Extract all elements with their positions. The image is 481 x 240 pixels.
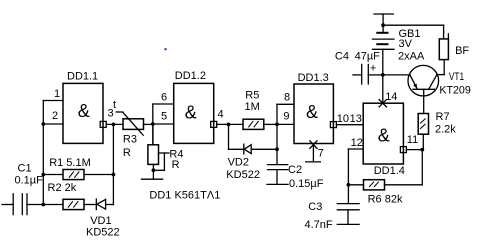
pin 6 label — [161, 92, 167, 104]
thermistor R3 — [116, 112, 153, 135]
transistor Q1 : VT1 — [408, 65, 444, 113]
pin 10 output square DD1.3 — [330, 122, 336, 128]
svg-text:+: + — [370, 63, 376, 75]
svg-text:7: 7 — [318, 147, 324, 159]
node VD2 right junction — [275, 147, 279, 151]
pin 3 label — [108, 108, 114, 120]
svg-text:0.15µF: 0.15µF — [289, 178, 324, 190]
svg-text:C3: C3 — [308, 201, 322, 213]
wire pin 12 — [348, 148, 363, 150]
node R4 wiper junction — [152, 168, 156, 172]
pin 4 label — [218, 109, 224, 121]
trimmer R4 — [148, 124, 169, 179]
svg-text:8: 8 — [284, 91, 290, 103]
R6 value label — [368, 193, 403, 205]
svg-text:R: R — [172, 159, 180, 171]
node R1 left junction — [41, 173, 45, 177]
svg-text:1: 1 — [54, 88, 60, 100]
pin 5 label — [161, 110, 167, 122]
power pin 14 cross — [379, 100, 386, 107]
pin 9 label — [283, 110, 289, 122]
svg-text:0.1µF: 0.1µF — [15, 174, 44, 186]
svg-text:R5: R5 — [245, 90, 259, 102]
emitter arrowhead — [413, 84, 417, 89]
svg-text:R7: R7 — [436, 111, 450, 123]
svg-text:47µF: 47µF — [355, 51, 381, 63]
wire DD1.2 input rail — [153, 104, 174, 145]
svg-text:DD1.1: DD1.1 — [67, 70, 98, 82]
wire DD1.3 input rail — [277, 104, 294, 164]
svg-text:R: R — [123, 147, 131, 159]
ground under R4 — [142, 178, 163, 180]
R7 value label — [435, 111, 456, 135]
svg-text:&: & — [78, 101, 90, 121]
svg-text:R3: R3 — [123, 134, 137, 146]
wire top rail to BF — [383, 25, 444, 39]
capacitor C1 — [2, 194, 43, 215]
svg-text:R6 82k: R6 82k — [368, 193, 403, 205]
svg-text:6: 6 — [161, 92, 167, 104]
node pin4 junction — [227, 123, 231, 127]
svg-text:9: 9 — [283, 110, 289, 122]
pin 4 output square DD1.2 — [211, 121, 217, 127]
svg-text:3V: 3V — [399, 38, 413, 50]
pin 7 label — [318, 147, 324, 159]
svg-text:KD522: KD522 — [226, 169, 260, 181]
buzzer BF — [439, 34, 448, 75]
svg-text:KT209: KT209 — [439, 85, 470, 97]
capacitor C4 — [353, 64, 383, 84]
op-amp U3 : logic gate DD1.3 — [294, 84, 333, 144]
diode VD2 — [229, 124, 278, 154]
svg-text:13: 13 — [350, 113, 362, 125]
capacitor C3 — [337, 149, 359, 224]
svg-text:C4: C4 — [335, 51, 349, 63]
resistor R5 — [243, 119, 277, 129]
svg-text:DD1 K561TΛ1: DD1 K561TΛ1 — [149, 189, 220, 201]
pin 2 label — [52, 110, 58, 122]
svg-text:11: 11 — [407, 134, 418, 146]
svg-text:DD1.3: DD1.3 — [298, 72, 329, 84]
VD2 label — [226, 156, 260, 181]
node R5 right junction — [275, 123, 279, 127]
node R1 right junction — [112, 173, 116, 177]
stray blue dot — [164, 48, 166, 50]
R1 value label — [49, 157, 91, 169]
DD1.3 label — [298, 72, 329, 122]
svg-text:12: 12 — [351, 137, 363, 149]
capacitor C2 — [268, 165, 288, 185]
wire node down to R6 — [421, 150, 423, 185]
VD1 label — [86, 215, 120, 239]
svg-text:DD1.4: DD1.4 — [374, 165, 405, 177]
svg-text:R2 2k: R2 2k — [48, 182, 77, 194]
op-amp U1 : logic gate DD1.1 — [63, 83, 103, 143]
C1 label — [15, 162, 44, 186]
GB1 label — [398, 28, 425, 63]
pin 8 label — [284, 91, 290, 103]
svg-text:VD2: VD2 — [228, 156, 249, 168]
resistor R2 — [43, 199, 96, 209]
node C1/R2 junction — [41, 203, 45, 207]
node pin11 junction — [420, 148, 424, 152]
node R6 left junction — [347, 183, 351, 187]
svg-text:4: 4 — [218, 109, 224, 121]
svg-text:KD522: KD522 — [86, 226, 120, 238]
C2 label — [288, 164, 324, 190]
R2 value label — [48, 182, 77, 194]
BF label — [455, 45, 469, 57]
svg-text:VD1: VD1 — [90, 215, 111, 227]
pin 3 output square DD1.1 — [100, 121, 106, 127]
wire emitter rail — [383, 74, 410, 76]
svg-text:DD1.2: DD1.2 — [175, 70, 206, 82]
op-amp U2 : logic gate DD1.2 — [174, 83, 214, 143]
svg-text:5: 5 — [161, 110, 167, 122]
svg-text:VT1: VT1 — [449, 71, 464, 83]
svg-text:&: & — [378, 126, 390, 146]
pin 1 label — [54, 88, 60, 100]
pin 10 13 labels — [337, 113, 362, 125]
svg-text:&: & — [185, 103, 197, 123]
R3 label — [113, 99, 137, 159]
wire pin4 to R5 — [217, 123, 243, 125]
VT1 label — [439, 71, 470, 97]
DD1.4 label — [374, 126, 405, 178]
pin 14 label — [385, 91, 397, 103]
svg-text:2xAA: 2xAA — [398, 51, 425, 63]
ground under C3 — [337, 223, 359, 225]
svg-text:BF: BF — [455, 45, 469, 57]
node C4 / emitter junction — [381, 73, 385, 77]
resistor R7 — [418, 114, 428, 150]
svg-text:&: & — [306, 102, 318, 122]
node stub2 junction — [41, 122, 45, 126]
wire pin3 to R3 — [106, 123, 123, 125]
battery GB1 — [373, 14, 395, 103]
R4 label — [169, 149, 183, 171]
pin 11 label — [407, 134, 418, 146]
svg-text:4.7nF: 4.7nF — [305, 219, 333, 231]
DD1.2 label — [175, 70, 206, 123]
svg-text:10: 10 — [337, 113, 349, 125]
pin 12 label — [351, 137, 363, 149]
R5 value label — [245, 90, 260, 113]
node stub5 junction — [151, 122, 155, 126]
DD1.1 label — [67, 70, 98, 121]
svg-text:C2: C2 — [288, 164, 302, 176]
ground under C2 — [267, 183, 288, 185]
resistor R6 — [348, 180, 422, 190]
op-amp U4 : logic gate DD1.4 — [363, 103, 403, 164]
svg-text:C1: C1 — [18, 162, 32, 174]
C4 label — [335, 51, 380, 75]
C3 label — [305, 201, 333, 231]
node pin3 junction — [112, 123, 116, 127]
DD1 chip type label — [149, 189, 220, 201]
pin 11 output square DD1.4 — [400, 147, 406, 153]
svg-text:1M: 1M — [245, 101, 260, 113]
svg-text:14: 14 — [385, 91, 397, 103]
wire pin10 to pin13 — [336, 124, 363, 126]
resistor R1 — [43, 170, 113, 180]
ground pin 7 — [306, 161, 321, 163]
diode VD1 — [96, 199, 113, 210]
power pin 7 cross — [310, 141, 317, 162]
svg-text:2.2k: 2.2k — [435, 124, 456, 136]
svg-text:R1 5.1M: R1 5.1M — [49, 157, 91, 169]
svg-text:2: 2 — [52, 110, 58, 122]
wire left input rail pins 1-2 — [43, 101, 63, 205]
wire pin11 to R7 node — [406, 149, 422, 151]
node top rail junction — [381, 23, 385, 27]
svg-text:t: t — [113, 99, 116, 111]
wire right rail down — [112, 124, 114, 204]
